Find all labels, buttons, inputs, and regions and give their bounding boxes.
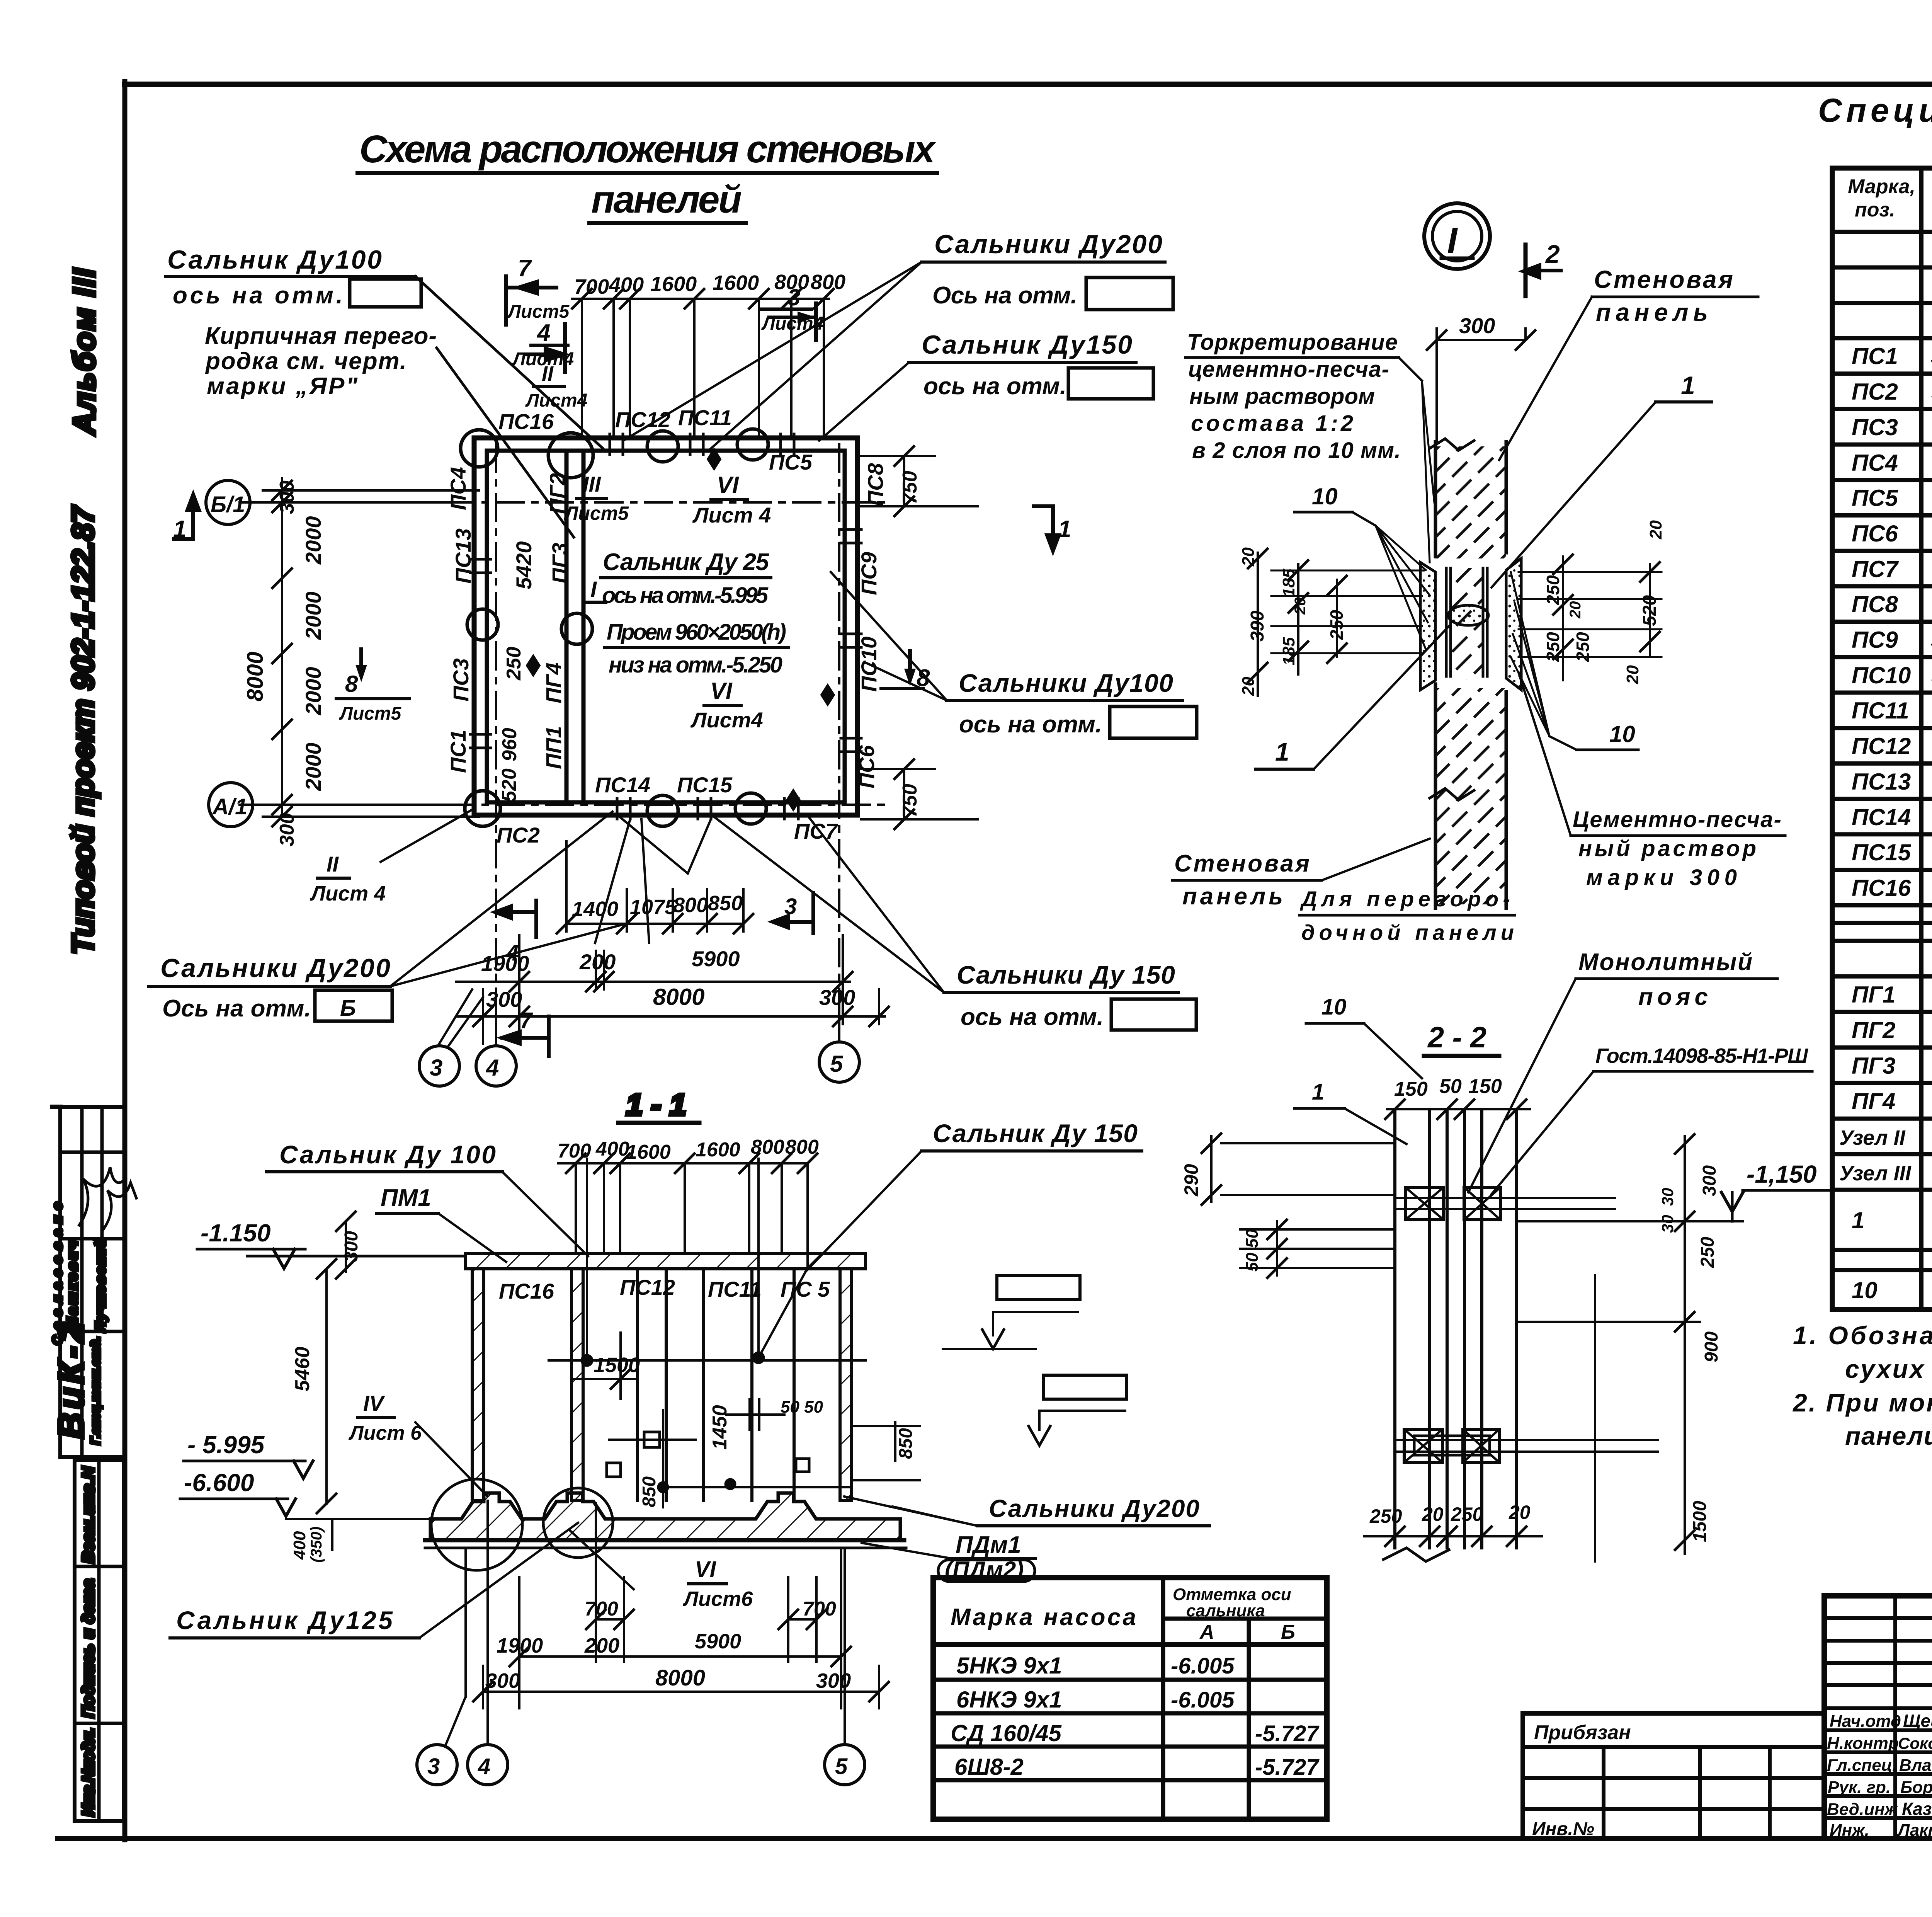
svg-text:5460: 5460	[291, 1347, 314, 1391]
svg-text:ПС12: ПС12	[620, 1275, 675, 1299]
svg-text:ПС16: ПС16	[499, 1279, 554, 1303]
svg-text:1: 1	[173, 516, 186, 543]
svg-text:-1,150: -1,150	[1747, 1160, 1816, 1188]
svg-text:панели ориентируется в соответ: панели ориентируется в соответствии со з…	[1845, 1422, 1932, 1450]
svg-text:1: 1	[1852, 1207, 1864, 1233]
svg-text:Узел III: Узел III	[1839, 1162, 1912, 1185]
svg-text:250: 250	[1697, 1237, 1718, 1268]
svg-text:150: 150	[1468, 1075, 1502, 1098]
svg-text:Лист5: Лист5	[507, 301, 570, 322]
svg-text:800: 800	[673, 894, 708, 917]
svg-text:ПС7: ПС7	[1852, 556, 1899, 582]
svg-text:8: 8	[345, 671, 358, 697]
svg-text:ПС7: ПС7	[794, 819, 838, 843]
svg-text:ПС 5: ПС 5	[781, 1277, 830, 1301]
svg-text:ПС4: ПС4	[446, 467, 470, 510]
svg-text:дочной панели: дочной панели	[1301, 920, 1514, 945]
svg-text:30: 30	[1658, 1188, 1677, 1206]
svg-text:5420: 5420	[512, 541, 536, 589]
svg-text:Сальник Ду 150: Сальник Ду 150	[933, 1119, 1138, 1147]
svg-text:5НКЭ 9х1: 5НКЭ 9х1	[956, 1653, 1062, 1679]
svg-text:20: 20	[1422, 1503, 1444, 1525]
svg-text:8000: 8000	[655, 1665, 705, 1691]
svg-text:Ось на отм.: Ось на отм.	[162, 995, 311, 1022]
panel verticals	[1393, 1109, 1396, 1548]
bottom connection plates	[1404, 1429, 1442, 1462]
svg-text:7: 7	[520, 1008, 533, 1033]
svg-text:ПС9: ПС9	[1852, 627, 1898, 653]
svg-text:Б: Б	[340, 996, 356, 1021]
top slab hatched	[466, 1253, 866, 1269]
floor slab	[430, 1493, 900, 1540]
svg-text:ПС8: ПС8	[1852, 591, 1898, 617]
svg-text:400: 400	[609, 273, 644, 296]
right dim chains	[1553, 555, 1660, 680]
svg-text:ПС1: ПС1	[1852, 343, 1898, 369]
title block	[1824, 1596, 1932, 1839]
spec title	[1818, 92, 1932, 161]
svg-text:ось на отм.: ось на отм.	[923, 373, 1066, 400]
svg-text:Для перегоро-: Для перегоро-	[1300, 887, 1510, 911]
svg-text:300: 300	[276, 813, 298, 846]
svg-text:250: 250	[1369, 1505, 1402, 1527]
svg-text:Спецификация к схеме расположе: Спецификация к схеме расположения	[1818, 92, 1932, 129]
svg-text:800: 800	[811, 271, 845, 294]
svg-text:1 - 1: 1 - 1	[626, 1088, 686, 1122]
svg-text:700: 700	[585, 1598, 618, 1620]
level line left	[247, 1255, 270, 1258]
svg-text:- 5.995: - 5.995	[187, 1431, 265, 1459]
svg-text:Вед.инж: Вед.инж	[1827, 1800, 1898, 1819]
svg-text:Щейко: Щейко	[1903, 1711, 1932, 1731]
svg-text:300: 300	[1699, 1165, 1720, 1196]
svg-text:150: 150	[1394, 1078, 1428, 1100]
svg-text:сухих грунтах.: сухих грунтах.	[1845, 1355, 1932, 1383]
svg-text:Гост.14098-85-Н1-РШ: Гост.14098-85-Н1-РШ	[1595, 1044, 1808, 1067]
svg-text:50 50: 50 50	[781, 1398, 823, 1416]
svg-text:ось на отм.: ось на отм.	[959, 711, 1102, 738]
svg-text:родка см. черт.: родка см. черт.	[205, 348, 406, 375]
svg-text:Подпись и дата: Подпись и дата	[79, 1579, 98, 1718]
svg-text:Взам.инв.N: Взам.инв.N	[79, 1466, 98, 1563]
svg-text:III: III	[583, 472, 601, 496]
svg-text:ПС11: ПС11	[1852, 698, 1909, 724]
dims bottom	[473, 1503, 889, 1708]
detail circles	[431, 1479, 522, 1570]
svg-text:панель: панель	[1182, 883, 1283, 910]
svg-text:Б: Б	[1281, 1621, 1295, 1643]
svg-text:Инв.№: Инв.№	[1532, 1819, 1594, 1839]
svg-text:ПС10: ПС10	[1852, 662, 1911, 688]
svg-text:Рук. гр.: Рук. гр.	[1828, 1778, 1891, 1797]
svg-text:1500: 1500	[1690, 1501, 1710, 1542]
svg-text:250: 250	[1543, 575, 1563, 605]
svg-text:Лист 6: Лист 6	[348, 1422, 422, 1444]
svg-text:Инв.Nподл.: Инв.Nподл.	[79, 1728, 98, 1817]
svg-text:Казина: Казина	[1902, 1799, 1932, 1819]
svg-text:250: 250	[1543, 632, 1563, 662]
svg-text:IV: IV	[363, 1391, 386, 1415]
svg-text:ПС1: ПС1	[446, 730, 470, 773]
panel verticals	[1434, 442, 1437, 557]
upper sidebar block	[60, 1107, 125, 1457]
signature grid	[1893, 1596, 1897, 1839]
svg-text:390: 390	[1247, 611, 1268, 642]
svg-text:ПП1: ПП1	[541, 726, 566, 769]
svg-text:1: 1	[1681, 371, 1695, 400]
svg-text:Типовой проект 902-1-122.87: Типовой проект 902-1-122.87	[66, 505, 100, 955]
svg-text:300: 300	[1459, 313, 1495, 338]
svg-text:20: 20	[1646, 520, 1665, 540]
uzel I detail	[1172, 203, 1785, 945]
svg-text:1: 1	[1312, 1079, 1324, 1105]
svg-text:900: 900	[1701, 1331, 1722, 1362]
svg-text:1075: 1075	[630, 896, 677, 919]
svg-text:ПС6: ПС6	[854, 745, 879, 788]
svg-text:20: 20	[1292, 598, 1309, 615]
svg-text:Лист5: Лист5	[564, 502, 629, 524]
svg-text:VI: VI	[695, 1557, 717, 1582]
svg-text:185: 185	[1279, 637, 1298, 666]
svg-text:200: 200	[579, 950, 616, 974]
svg-text:Лист 4: Лист 4	[692, 503, 771, 527]
svg-text:ПС9: ПС9	[857, 552, 881, 595]
300 dim	[1437, 339, 1526, 341]
svg-text:ПС16: ПС16	[1852, 875, 1911, 901]
svg-text:Н.контр: Н.контр	[1827, 1734, 1899, 1753]
svg-text:3: 3	[787, 284, 800, 310]
svg-text:1600: 1600	[696, 1139, 740, 1161]
svg-text:200: 200	[584, 1634, 619, 1657]
svg-text:2000: 2000	[301, 667, 325, 715]
svg-text:ПС12: ПС12	[1852, 733, 1911, 759]
svg-text:300: 300	[485, 1669, 520, 1692]
svg-text:300: 300	[816, 1669, 851, 1692]
svg-text:ПГ4: ПГ4	[1852, 1088, 1895, 1114]
joint circles on walls	[461, 430, 498, 467]
thin horizontal leader lines across joint	[1271, 570, 1662, 657]
partition wall	[565, 451, 569, 802]
svg-text:Стеновая: Стеновая	[1594, 266, 1733, 293]
svg-text:Лист4: Лист4	[690, 708, 763, 732]
svg-text:Б/1: Б/1	[211, 492, 245, 517]
svg-text:ПС2: ПС2	[497, 823, 540, 847]
svg-text:520: 520	[1639, 595, 1660, 626]
svg-text:3: 3	[427, 1754, 440, 1779]
svg-text:1600: 1600	[626, 1141, 671, 1163]
svg-text:300: 300	[276, 480, 298, 514]
svg-text:520: 520	[498, 768, 520, 802]
svg-text:ПС13: ПС13	[451, 528, 475, 584]
svg-text:Борисенко: Борисенко	[1900, 1778, 1932, 1797]
svg-text:2 - 2: 2 - 2	[1427, 1021, 1486, 1054]
svg-text:20: 20	[1239, 547, 1258, 567]
break bottom	[1383, 1548, 1449, 1561]
svg-text:1600: 1600	[713, 271, 759, 295]
section 2-2	[1180, 949, 1855, 1561]
svg-text:ПС14: ПС14	[595, 773, 650, 797]
svg-text:850: 850	[639, 1476, 660, 1507]
plan drawing	[206, 289, 889, 1086]
svg-text:300: 300	[819, 985, 855, 1010]
svg-text:ПС2: ПС2	[1852, 379, 1898, 405]
svg-text:поз.: поз.	[1855, 199, 1895, 221]
svg-text:ный раствор: ный раствор	[1578, 836, 1756, 861]
svg-text:5900: 5900	[692, 947, 740, 971]
top dim chain	[572, 289, 833, 438]
svg-text:ПС6: ПС6	[1852, 521, 1898, 546]
svg-text:2. При монтаже стеновых панеле: 2. При монтаже стеновых панелей внутренн…	[1792, 1388, 1932, 1417]
svg-text:50 50: 50 50	[1243, 1229, 1262, 1272]
svg-text:50: 50	[1439, 1075, 1462, 1098]
svg-text:20: 20	[1239, 677, 1258, 696]
svg-text:ПС4: ПС4	[1852, 450, 1898, 476]
svg-text:Лучковский: Лучковский	[92, 1239, 108, 1333]
svg-text:2000: 2000	[301, 591, 325, 640]
svg-text:Лактионов: Лактионов	[1897, 1821, 1932, 1840]
svg-text:250: 250	[1573, 632, 1593, 662]
svg-text:20: 20	[1623, 665, 1642, 684]
2 marker top	[1524, 245, 1528, 296]
svg-text:II: II	[542, 362, 554, 385]
svg-text:-5.727: -5.727	[1255, 1721, 1320, 1746]
svg-text:960: 960	[498, 728, 521, 761]
svg-text:Гл.спец.: Гл.спец.	[1827, 1756, 1897, 1775]
empty level boxes right	[997, 1275, 1080, 1299]
svg-text:ПМ1: ПМ1	[381, 1185, 431, 1211]
svg-text:Марка насоса: Марка насоса	[951, 1604, 1136, 1631]
svg-text:8000: 8000	[653, 984, 704, 1010]
svg-text:Торкретирование: Торкретирование	[1187, 330, 1398, 355]
svg-text:Инж.: Инж.	[1830, 1821, 1869, 1840]
svg-text:4: 4	[536, 320, 550, 346]
axis circles	[206, 480, 859, 1086]
left bars 290	[1221, 1142, 1395, 1144]
svg-text:Кирпичная перего-: Кирпичная перего-	[205, 323, 437, 349]
svg-text:ным раствором: ным раствором	[1189, 384, 1375, 409]
lower sidebar strip	[75, 1460, 124, 1821]
svg-text:в 2 слоя по 10 мм.: в 2 слоя по 10 мм.	[1192, 438, 1401, 463]
svg-text:250: 250	[1451, 1503, 1483, 1525]
plan surrounding labels	[149, 230, 1197, 1056]
svg-text:400: 400	[595, 1138, 629, 1160]
left dim chain	[240, 478, 479, 826]
svg-text:Лист 4: Лист 4	[310, 882, 386, 905]
svg-text:Проем 960×2050(h): Проем 960×2050(h)	[607, 620, 786, 645]
svg-text:5: 5	[830, 1051, 844, 1077]
svg-text:4: 4	[506, 940, 519, 965]
svg-text:3: 3	[430, 1055, 442, 1081]
svg-text:II: II	[327, 852, 339, 876]
svg-text:30: 30	[1658, 1215, 1677, 1233]
svg-text:Схема расположения стеновых: Схема расположения стеновых	[359, 128, 936, 171]
axes circles bottom	[417, 1745, 457, 1785]
svg-text:Марка,: Марка,	[1848, 175, 1915, 198]
svg-text:ПС15: ПС15	[1852, 839, 1912, 865]
break marks	[1430, 439, 1474, 450]
svg-text:марки 300: марки 300	[1586, 865, 1737, 890]
svg-text:Лист5: Лист5	[339, 703, 402, 724]
svg-text:ось на отм.-5.995: ось на отм.-5.995	[602, 583, 769, 608]
svg-text:Цементно-песча-: Цементно-песча-	[1573, 807, 1781, 832]
svg-text:Сальник Ду125: Сальник Ду125	[176, 1606, 393, 1634]
svg-text:ось на отм.: ось на отм.	[173, 282, 343, 309]
svg-text:ПС11: ПС11	[678, 405, 732, 430]
svg-text:-6.005: -6.005	[1171, 1687, 1235, 1713]
top connection plates	[1405, 1187, 1444, 1220]
svg-text:3: 3	[784, 894, 797, 919]
internal marks	[644, 1432, 660, 1447]
svg-text:Сокольская: Сокольская	[1898, 1734, 1932, 1752]
svg-text:20: 20	[1567, 601, 1584, 619]
left dim chains	[1248, 549, 1347, 696]
svg-text:Сальники Ду200: Сальники Ду200	[934, 230, 1162, 259]
svg-text:250: 250	[1327, 610, 1347, 640]
notes	[1792, 1321, 1932, 1450]
svg-text:Монолитный: Монолитный	[1578, 949, 1752, 976]
svg-text:20: 20	[1509, 1502, 1531, 1523]
svg-text:ПС16: ПС16	[498, 409, 554, 434]
svg-text:Сальники Ду200: Сальники Ду200	[989, 1495, 1199, 1522]
svg-text:Ось на отм.: Ось на отм.	[932, 282, 1077, 309]
svg-text:5900: 5900	[695, 1630, 741, 1653]
svg-text:ПС13: ПС13	[1852, 769, 1911, 795]
svg-text:2: 2	[1545, 240, 1560, 268]
svg-text:2000: 2000	[301, 516, 325, 565]
svg-text:Нач.отд: Нач.отд	[1830, 1712, 1901, 1731]
svg-text:185: 185	[1279, 569, 1298, 597]
svg-text:10: 10	[1321, 994, 1347, 1020]
svg-text:панелей: панелей	[591, 178, 742, 221]
svg-text:Стеновая: Стеновая	[1174, 850, 1310, 877]
svg-text:Сальник Ду 100: Сальник Ду 100	[279, 1140, 496, 1169]
50 50 bars	[1240, 1229, 1395, 1268]
svg-text:ПС8: ПС8	[863, 463, 888, 506]
svg-text:1400: 1400	[572, 897, 618, 921]
orientation diamonds	[709, 451, 719, 468]
svg-text:10: 10	[1312, 484, 1338, 509]
svg-text:ВиК-2: ВиК-2	[51, 1323, 91, 1439]
panel joint ticks on top wall	[470, 434, 861, 819]
svg-text:низ на отм.-5.250: низ на отм.-5.250	[609, 652, 782, 678]
svg-text:1: 1	[1058, 516, 1071, 543]
svg-text:(350): (350)	[308, 1527, 325, 1563]
svg-text:7: 7	[518, 255, 532, 282]
svg-text:-6.600: -6.600	[184, 1469, 254, 1496]
svg-text:VI: VI	[710, 678, 733, 704]
svg-text:250: 250	[503, 647, 525, 681]
svg-text:марки „ЯР": марки „ЯР"	[207, 373, 358, 400]
pump table	[933, 1578, 1327, 1819]
svg-text:Машкевич: Машкевич	[65, 1241, 81, 1330]
svg-text:300: 300	[341, 1231, 362, 1262]
svg-text:Лист6: Лист6	[682, 1587, 753, 1611]
svg-text:Власенко: Власенко	[1899, 1756, 1932, 1775]
svg-text:5: 5	[835, 1754, 848, 1779]
svg-text:ПГ1: ПГ1	[1852, 982, 1895, 1008]
svg-text:панель: панель	[1596, 298, 1708, 326]
svg-text:Г.спец.техн.отд.: Г.спец.техн.отд.	[88, 1336, 102, 1445]
svg-text:8000: 8000	[243, 652, 268, 701]
svg-text:ПДм1: ПДм1	[956, 1532, 1021, 1558]
svg-text:Лист4: Лист4	[525, 390, 587, 411]
svg-text:1450: 1450	[709, 1405, 731, 1450]
left sidebar	[50, 268, 136, 1821]
svg-text:Сальники Ду200: Сальники Ду200	[160, 953, 390, 983]
svg-text:ПС5: ПС5	[769, 450, 813, 474]
section 1-1	[247, 1088, 920, 1785]
svg-text:I: I	[590, 577, 597, 602]
svg-text:ПС3: ПС3	[449, 658, 473, 701]
walls outer	[474, 438, 857, 815]
spec table	[1832, 168, 1932, 1309]
svg-text:Сальник Ду100: Сальник Ду100	[167, 245, 382, 274]
joint: side blocks with dots	[1420, 562, 1435, 690]
svg-text:ПС5: ПС5	[1852, 485, 1898, 511]
svg-text:4: 4	[486, 1055, 499, 1081]
svg-text:1900: 1900	[497, 1634, 543, 1657]
svg-text:1500: 1500	[594, 1353, 640, 1377]
svg-text:700: 700	[574, 275, 609, 298]
svg-text:А: А	[1199, 1621, 1214, 1643]
axis lines dash-dot	[249, 444, 889, 1044]
svg-text:I: I	[1447, 220, 1458, 261]
bottom dim rows	[456, 841, 889, 1044]
svg-text:1. Обозначения в скобках даны: 1. Обозначения в скобках даны для вариан…	[1793, 1321, 1932, 1350]
svg-text:сальника: сальника	[1186, 1601, 1265, 1620]
svg-text:6Ш8-2: 6Ш8-2	[954, 1754, 1024, 1780]
svg-text:ПС11: ПС11	[708, 1277, 762, 1301]
svg-text:10: 10	[1852, 1277, 1878, 1303]
hatch dashes inside panel	[1435, 446, 1506, 558]
svg-text:-5.727: -5.727	[1255, 1755, 1320, 1780]
svg-text:VI: VI	[717, 472, 739, 498]
svg-text:Альбом III: Альбом III	[67, 268, 101, 436]
svg-text:ПС3: ПС3	[1852, 414, 1898, 440]
svg-text:300: 300	[486, 987, 522, 1011]
svg-text:2000: 2000	[301, 742, 325, 791]
svg-text:290: 290	[1180, 1164, 1202, 1197]
svg-text:ПГ2: ПГ2	[1852, 1017, 1895, 1043]
svg-text:ось на отм.: ось на отм.	[961, 1004, 1104, 1030]
svg-text:пояс: пояс	[1638, 984, 1708, 1010]
svg-text:700: 700	[803, 1598, 836, 1620]
svg-text:Сальники Ду 150: Сальники Ду 150	[957, 960, 1175, 989]
svg-text:10: 10	[1609, 721, 1635, 747]
pribyazан box	[1523, 1713, 1824, 1839]
svg-text:ПГ3: ПГ3	[1852, 1053, 1895, 1079]
main title	[357, 128, 937, 223]
svg-text:Сальник Ду150: Сальник Ду150	[922, 330, 1132, 359]
svg-text:850: 850	[708, 892, 743, 915]
svg-text:состава 1:2: состава 1:2	[1191, 411, 1353, 436]
svg-text:400: 400	[290, 1531, 309, 1560]
svg-text:ПС14: ПС14	[1852, 804, 1911, 830]
svg-text:-6.005: -6.005	[1171, 1653, 1235, 1679]
svg-text:-1.150: -1.150	[201, 1219, 270, 1247]
svg-text:4: 4	[478, 1754, 490, 1779]
wall panels	[472, 1269, 852, 1501]
svg-text:ПС15: ПС15	[677, 773, 733, 797]
svg-text:А/1: А/1	[212, 794, 247, 819]
svg-text:ПГ3: ПГ3	[548, 543, 572, 584]
svg-text:ПГ4: ПГ4	[541, 662, 566, 703]
svg-text:Сальник Ду 25: Сальник Ду 25	[603, 549, 770, 575]
svg-text:1600: 1600	[650, 272, 697, 296]
svg-text:цементно-песча-: цементно-песча-	[1188, 357, 1389, 382]
svg-text:Прибязан: Прибязан	[1534, 1721, 1631, 1744]
svg-text:6НКЭ 9х1: 6НКЭ 9х1	[956, 1687, 1062, 1713]
